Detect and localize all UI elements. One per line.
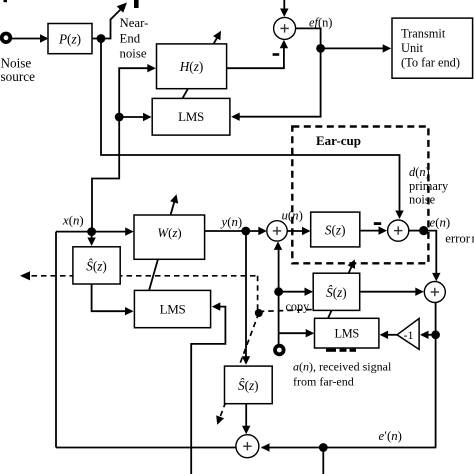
wire x(n) horizontal — [56, 231, 132, 233]
ear-cup dashed boundary — [292, 127, 428, 264]
dashed copy path corner down — [257, 276, 259, 313]
node N7 junction — [319, 443, 328, 452]
node N3 junction ef(n) — [316, 44, 325, 53]
svg-text:noise: noise — [120, 46, 147, 60]
box S-hat-right — [313, 273, 360, 310]
wire S(z) output to summer C — [360, 230, 385, 232]
wire -1 triangle to LMS3 — [381, 334, 397, 336]
node N6 junction — [274, 287, 283, 296]
svg-text:primary: primary — [409, 179, 449, 193]
node e(n) junction — [419, 226, 428, 235]
wire P(z) output to node N1 — [92, 38, 102, 40]
minus sign at summer C — [374, 222, 381, 225]
node x(n) junction — [87, 227, 96, 236]
wire summer E right input — [262, 447, 437, 449]
svg-text:Unit: Unit — [401, 41, 424, 55]
wire W(z) output y(n) to summer B — [205, 230, 265, 232]
wire error feedback from bottom edge to LMS2 — [191, 307, 225, 474]
wire noise source to P(z) — [11, 38, 49, 40]
dashed copy diagonal to lower-left arrow — [218, 313, 259, 423]
box S-hat-left — [73, 247, 120, 284]
wire S-hat-bottom output to summer E — [245, 404, 247, 432]
svg-text:Ear-cup: Ear-cup — [316, 133, 361, 148]
svg-text:LMS: LMS — [335, 327, 360, 341]
box transmit unit — [392, 18, 473, 78]
wire S-hat-right output to summer D — [360, 291, 422, 293]
gain -1 triangle — [397, 319, 419, 350]
near-end mic bar (cropped) — [134, 0, 139, 8]
wire branch up to H(z) input — [119, 68, 154, 155]
svg-text:copy: copy — [286, 299, 311, 313]
svg-text:y(n): y(n) — [220, 215, 243, 229]
svg-text:noise: noise — [409, 193, 436, 207]
wire top input to summer A — [283, 0, 285, 14]
node N5 junction — [431, 330, 440, 339]
wire node N3 to LMS1 error input — [233, 48, 321, 116]
wire node N7 down to bottom edge — [322, 448, 324, 474]
wire node N2 to LMS1 input — [119, 116, 150, 118]
adaptation arrow LMS2 to W(z) — [149, 197, 176, 292]
svg-text:d(n): d(n) — [409, 165, 430, 179]
node y(n) junction — [241, 227, 250, 236]
svg-text:ef(n): ef(n) — [309, 16, 332, 30]
wire x(n) node to S-hat-left — [91, 232, 93, 244]
svg-text:from far-end: from far-end — [293, 374, 354, 388]
svg-text:a(n), received signal: a(n), received signal — [293, 360, 392, 374]
svg-text:H(z): H(z) — [179, 59, 203, 74]
box H(z) — [157, 44, 227, 89]
wire x(n) left vertical — [55, 232, 57, 448]
noise source terminal — [2, 34, 11, 43]
wire node N3 to transmit unit — [321, 47, 390, 49]
wire node e(n) to summer D — [424, 231, 437, 279]
minus sign at summer A — [273, 53, 280, 56]
summer D (right) — [424, 282, 445, 303]
wire node N1 down and right to d(n) drop — [101, 39, 400, 216]
svg-text:P(z): P(z) — [58, 31, 81, 46]
svg-text:-1: -1 — [404, 328, 414, 342]
box W(z) — [134, 215, 205, 259]
svg-text:End: End — [120, 32, 141, 46]
box LMS3 — [315, 318, 379, 348]
wire a(n) terminal up to summer B — [278, 244, 280, 344]
wire S-hat-left output to LMS2 — [92, 284, 132, 311]
svg-text:source: source — [1, 69, 36, 84]
svg-text:Transmit: Transmit — [401, 27, 446, 41]
svg-text:W(z): W(z) — [157, 226, 181, 240]
wire summer D output down — [435, 302, 437, 447]
node N1 junction — [97, 34, 106, 43]
summer C (ear-cup) — [388, 220, 409, 241]
wire e-prime horizontal — [56, 447, 236, 449]
box S-hat-bottom — [225, 366, 273, 404]
svg-text:Near-: Near- — [120, 16, 149, 30]
svg-text:e′(n): e′(n) — [379, 429, 402, 443]
svg-text:Ŝ(z): Ŝ(z) — [238, 378, 259, 393]
box LMS1 — [152, 98, 230, 135]
box P(z) — [48, 24, 92, 54]
adaptation arrow LMS3 through S-hat-right — [328, 261, 354, 318]
dashed copy to S-hat-right — [259, 310, 313, 312]
svg-text:S(z): S(z) — [325, 223, 346, 238]
corner mark (cropped) — [4, 0, 8, 2]
wire y(n) node down to S-hat-bottom — [245, 231, 247, 362]
hidden label fragments under LMS3 — [326, 349, 336, 352]
wire node N1 to near-end mic arrow — [101, 6, 124, 39]
svg-text:error: error — [445, 231, 471, 245]
svg-text:LMS: LMS — [178, 109, 204, 124]
dashed copy node — [255, 309, 263, 317]
wire node N5 to -1 triangle — [422, 334, 436, 336]
adaptation arrow LMS1 to H(z) — [183, 33, 220, 98]
wire summer C to node e(n) — [409, 230, 424, 232]
summer A (ef) — [274, 17, 296, 39]
svg-text:(To far end): (To far end) — [401, 56, 460, 70]
svg-text:e(n): e(n) — [430, 215, 451, 229]
svg-text:x(n): x(n) — [62, 213, 84, 227]
svg-text:u(n): u(n) — [282, 209, 303, 223]
summer E (bottom) — [236, 435, 259, 458]
wire summer B to S(z) — [287, 230, 309, 232]
svg-text:Ŝ(z): Ŝ(z) — [326, 285, 347, 300]
wire branch to LMS3 input — [279, 332, 313, 334]
node N2 junction — [115, 113, 124, 122]
svg-text:Ŝ(z): Ŝ(z) — [86, 258, 107, 273]
wire H(z) output to summer A — [227, 42, 284, 68]
box S(z) — [311, 212, 360, 247]
dashed copy path to left arrow — [22, 275, 258, 277]
wire node N6 to S-hat-right input — [279, 291, 312, 293]
svg-text:LMS: LMS — [160, 302, 186, 317]
wire summer A to node N3 — [296, 28, 321, 48]
wire branch down to x(n) — [92, 155, 119, 232]
summer B (u) — [267, 221, 287, 241]
a(n) far-end terminal — [275, 346, 284, 355]
box LMS2 — [134, 290, 210, 327]
